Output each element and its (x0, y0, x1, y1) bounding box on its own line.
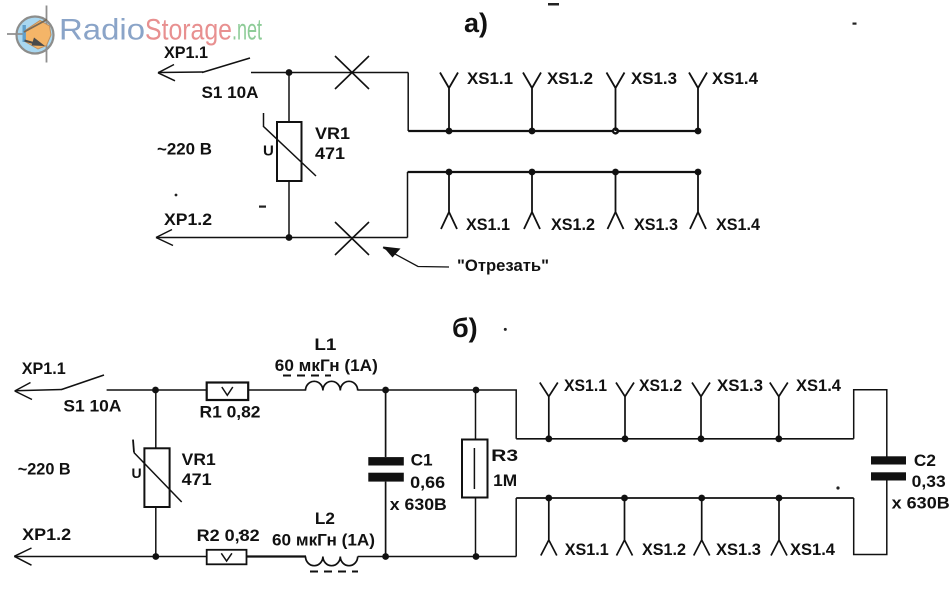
capacitor C1 wire top (385, 390, 387, 457)
bottom socket bus (a) (408, 171, 699, 173)
wire arrow to switch (б) (15, 390, 62, 391)
svg-text:XS1.4: XS1.4 (796, 376, 842, 395)
socket XS1.4 (a bottom) (690, 169, 706, 229)
scan speck marks (175, 3, 857, 534)
svg-text:XS1.2: XS1.2 (642, 540, 686, 559)
top socket bus (a) (408, 130, 698, 132)
resistor R3 body (462, 440, 488, 498)
svg-text:XP1.1: XP1.1 (164, 43, 208, 62)
svg-text:XS1.1: XS1.1 (467, 69, 513, 88)
socket XS1.1 (б bottom) (541, 495, 557, 556)
svg-text:x 630В: x 630В (390, 495, 447, 514)
capacitor C2 plates (871, 456, 906, 480)
wire R2 to L2 (247, 555, 307, 557)
switch S1 blade (б) (62, 375, 104, 390)
resistor R2 (fusible) (207, 550, 247, 565)
svg-text:XS1.1: XS1.1 (466, 215, 510, 234)
svg-text:б): б) (452, 313, 478, 343)
connector arrow XP1.1 (a) (158, 65, 175, 81)
socket XS1.2 (a bottom) (524, 169, 540, 229)
inductor L1 (305, 381, 357, 390)
svg-text:а): а) (464, 8, 488, 38)
callout arrow Отрезать (383, 247, 449, 268)
cut mark X on bottom wire (a) (335, 222, 369, 255)
svg-text:L1: L1 (314, 335, 336, 354)
logo transistor icon (7, 6, 54, 63)
svg-text:S1 10A: S1 10A (202, 83, 259, 102)
junction node (476,556.5) (473, 553, 480, 560)
resistor R3 wire bottom (475, 498, 477, 557)
bottom wire arrow to R2 (б) (14, 556, 206, 558)
svg-text:~220 В: ~220 В (18, 460, 71, 479)
socket XS1.3 (б bottom) (694, 495, 710, 556)
svg-text:x 630В: x 630В (892, 494, 950, 513)
connector arrow XP1.2 (б) (14, 548, 31, 565)
svg-text:C1: C1 (411, 451, 433, 470)
top socket bus (б) (516, 438, 854, 440)
svg-text:U: U (263, 143, 274, 160)
svg-text:XS1.3: XS1.3 (717, 376, 763, 395)
socket XS1.1 (a top) (440, 73, 458, 135)
svg-text:XS1.3: XS1.3 (631, 69, 677, 88)
varistor VR1 (a) wire bottom (288, 181, 290, 237)
wire arrow to switch (a) (158, 71, 203, 74)
socket XS1.2 (б bottom) (617, 495, 633, 556)
svg-text:R1 0,82: R1 0,82 (200, 403, 261, 422)
wire R1 to L1 (248, 389, 306, 391)
svg-text:VR1: VR1 (182, 450, 216, 469)
svg-text:XP1.1: XP1.1 (22, 359, 66, 378)
svg-text:XS1.2: XS1.2 (547, 69, 593, 88)
resistor R1 (fusible) (207, 383, 249, 401)
wire bus-left vertical (a bottom) (407, 172, 409, 238)
svg-text:C2: C2 (914, 451, 936, 470)
wire bus-left vertical (б bottom) (515, 498, 517, 557)
junction node (385.6,390) (382, 387, 389, 394)
svg-text:XS1.3: XS1.3 (634, 215, 678, 234)
socket XS1.3 (a top) (607, 73, 625, 135)
connector arrow XP1.2 (a) (156, 230, 173, 246)
svg-text:0,33: 0,33 (912, 472, 946, 491)
logo text RadioStorage.net (59, 14, 262, 47)
varistor VR1 (б) wire top (155, 390, 157, 448)
svg-text:XS1.4: XS1.4 (712, 69, 759, 88)
bottom wire L2 to bus corner (б) (358, 556, 517, 558)
svg-text:XS1.2: XS1.2 (639, 376, 682, 395)
bottom wire (a) (156, 237, 408, 239)
junction node (155.5,390) (152, 387, 159, 394)
socket XS1.2 (a top) (523, 73, 541, 135)
wire top bus to C2 (б right) (854, 390, 887, 457)
svg-text:U: U (132, 465, 142, 481)
svg-text:"Отрезать": "Отрезать" (457, 256, 549, 275)
svg-text:XP1.2: XP1.2 (22, 525, 71, 544)
svg-text:60 мкГн (1А): 60 мкГн (1А) (275, 356, 378, 375)
svg-text:R3: R3 (491, 446, 518, 465)
svg-text:~220 В: ~220 В (157, 140, 212, 159)
svg-text:0,66: 0,66 (410, 473, 445, 492)
svg-text:XS1.3: XS1.3 (716, 540, 761, 559)
cut mark X on top wire (a) (335, 56, 369, 89)
varistor VR1 (б) body (132, 440, 182, 507)
svg-text:1M: 1M (493, 471, 517, 490)
svg-text:S1 10A: S1 10A (63, 397, 121, 416)
svg-text:XS1.4: XS1.4 (790, 540, 836, 559)
varistor VR1 (a) body (263, 113, 316, 181)
svg-text:60 мкГн (1А): 60 мкГн (1А) (272, 531, 375, 550)
junction node (385.6,556.5) (382, 553, 389, 560)
svg-text:XS1.2: XS1.2 (551, 215, 595, 234)
socket XS1.1 (a bottom) (441, 169, 457, 229)
svg-text:XP1.2: XP1.2 (164, 210, 212, 229)
wire switch to R1 (б) (107, 389, 207, 391)
junction node (476,390) (473, 387, 480, 394)
junction node (289,72) (286, 69, 293, 76)
svg-text:Radio: Radio (59, 14, 145, 47)
svg-text:Storage: Storage (145, 14, 232, 47)
switch S1 blade (a) (202, 58, 250, 73)
socket XS1.3 (б top) (692, 383, 710, 443)
inductor L2 (305, 557, 357, 566)
svg-text:R2 0,82: R2 0,82 (197, 526, 260, 545)
junction node (289,237) (286, 234, 293, 241)
connector arrow XP1.1 (б) (15, 383, 32, 400)
svg-text:471: 471 (182, 470, 212, 489)
junction node (155.8,556.5) (152, 553, 159, 560)
dashed mark under L1 label (283, 375, 331, 377)
wire C2 to bottom bus (б right) (854, 481, 887, 555)
bottom socket bus (б) (516, 497, 854, 499)
capacitor C1 wire bottom (385, 482, 387, 557)
socket XS1.1 (б top) (540, 383, 558, 443)
svg-text:VR1: VR1 (315, 124, 350, 143)
svg-text:XS1.1: XS1.1 (564, 376, 607, 395)
svg-text:L2: L2 (315, 509, 335, 528)
wire L1 to C1 junction (358, 389, 476, 391)
svg-text:.net: .net (232, 14, 262, 47)
resistor R3 wire top (475, 390, 477, 440)
socket XS1.3 (a bottom) (608, 169, 624, 229)
wire junction to top-bus corner (б) (476, 390, 516, 439)
socket XS1.4 (a top) (689, 73, 707, 135)
capacitor C1 plates (368, 457, 404, 482)
varistor VR1 (a) wire top (288, 73, 290, 123)
svg-text:XS1.1: XS1.1 (565, 540, 609, 559)
svg-text:471: 471 (315, 144, 345, 163)
svg-text:XS1.4: XS1.4 (716, 215, 761, 234)
socket XS1.4 (б top) (770, 383, 788, 443)
socket XS1.4 (б bottom) (771, 495, 787, 556)
wire corner down to top bus (a) (407, 73, 409, 132)
wire switch to corner (a top) (251, 72, 408, 74)
socket XS1.2 (б top) (616, 383, 634, 443)
dashed mark under L2 (310, 571, 358, 573)
varistor VR1 (б) wire bottom (155, 507, 157, 557)
